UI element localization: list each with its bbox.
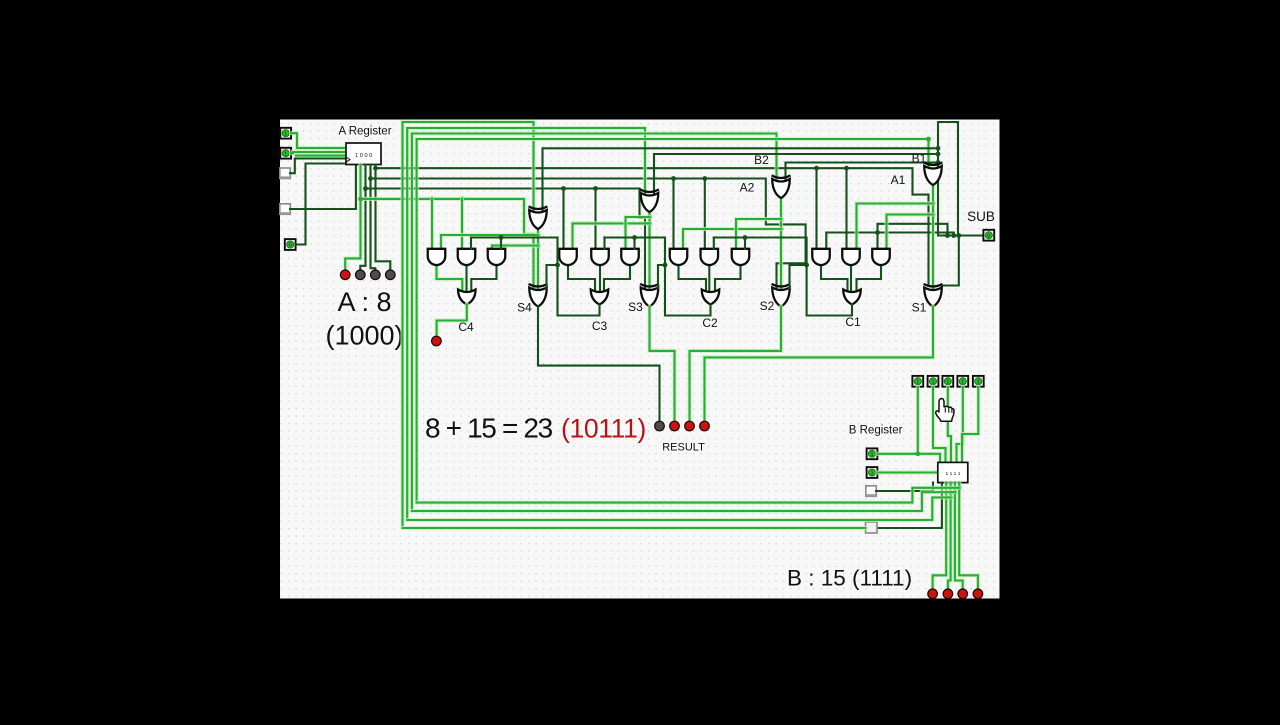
svg-text:S3: S3 (628, 300, 643, 314)
wire SUB loop (938, 122, 988, 236)
svg-text:8 + 15 = 23: 8 + 15 = 23 (425, 413, 553, 444)
junction B'4 branch2 (536, 243, 541, 248)
wire pinA1 to register D1 (290, 159, 346, 174)
junction B0 tap (957, 485, 962, 490)
input pin A bit0 (gray) (280, 204, 291, 215)
junction B'3 branch1 (647, 221, 652, 226)
junction C3 xor branch (555, 263, 560, 268)
and gate slice1 AND1 (812, 249, 830, 265)
LED B0 (red) (973, 588, 984, 599)
input pin A bit3 (1) (280, 128, 291, 139)
mouse cursor hand (936, 398, 954, 421)
xor gate B2 input (B xor SUB) (772, 175, 791, 198)
junction A4 to AND1 (430, 197, 435, 202)
wire B'1 to AND b (887, 215, 934, 250)
wire carry C1 staircase (714, 238, 852, 316)
junction A3 to AND2 (593, 186, 598, 191)
wire carry C2 staircase (605, 238, 711, 316)
and gate slice2 AND2 (701, 249, 719, 265)
input pin A load (285, 239, 296, 250)
or gate carry C2 (702, 290, 720, 305)
wire AND1 out slice1 (821, 265, 848, 293)
LED B1 (red) (957, 588, 968, 599)
wire B'4 to AND a (441, 235, 538, 249)
wire xor4 output to sum (536, 229, 540, 288)
junction A1 to AND2 (844, 166, 849, 171)
wire B'2 to AND b (736, 219, 781, 249)
wire B out to LED4 (959, 483, 978, 589)
wire B pin3 to register (948, 387, 951, 463)
junction B'4 branch1 (536, 233, 541, 238)
svg-text:A Register: A Register (338, 126, 391, 138)
and gate slice1 AND3 (872, 249, 890, 265)
junction B1 line (926, 137, 931, 142)
wire A2 to slice2 AND2 (704, 179, 706, 250)
input pin B load (867, 467, 878, 478)
xor gate sum S3 (640, 284, 659, 307)
wire C3 stub AND2 (470, 238, 472, 250)
wire C1 stub AND3 (744, 238, 746, 250)
junction A3 to AND1 (561, 186, 566, 191)
junction B1 tap (953, 490, 958, 495)
wire B pin5 to register (962, 387, 978, 463)
svg-text:1: 1 (931, 379, 934, 385)
wire register D3 input run (296, 154, 346, 158)
wire AND3 out slice2 (715, 265, 741, 293)
wire B out to LED1 (933, 483, 947, 589)
wire B enable to register (877, 452, 917, 456)
LED A0 (gray) (385, 269, 396, 280)
wire pinA2 to register D2 (291, 152, 346, 153)
wire S3 to result LED (650, 307, 675, 421)
svg-text:(1000): (1000) (325, 321, 403, 351)
wire B2 feedback bundle line (412, 134, 777, 512)
junction C0 cross (875, 230, 880, 235)
and gate slice3 AND3 (621, 249, 639, 265)
wire B load to register (877, 470, 937, 474)
LED result S3 (red) (669, 421, 680, 432)
wire AND1 out slice2 (679, 265, 707, 293)
junction C3 AND3 (499, 235, 504, 240)
wire C2 to sum xor (658, 265, 665, 288)
wire A1 to slice1 AND2 (845, 168, 847, 249)
wire B pin4 to register (957, 387, 963, 463)
wire B'2 to AND a (683, 229, 781, 249)
wire net A4 row (value 1) (361, 199, 534, 288)
wire A3 register output to LED (345, 165, 360, 270)
junction C2 AND3 (632, 235, 637, 240)
svg-text:B : 15 (1111): B : 15 (1111) (787, 566, 912, 591)
junction A2 to AND1 (671, 176, 676, 181)
wire net A2 row (371, 179, 806, 289)
svg-text:0: 0 (289, 243, 292, 249)
junction SUB s4 (936, 146, 941, 151)
svg-text:RESULT: RESULT (662, 442, 705, 454)
wire AND2 out slice1 (850, 265, 852, 293)
svg-text:1: 1 (977, 379, 980, 385)
wire B1 feedback bottom run (412, 492, 955, 511)
wire C1 to sum xor (790, 265, 807, 288)
wire A1 to slice1 AND1 (815, 168, 817, 249)
xor gate B1 input (B xor SUB) (924, 162, 943, 185)
wire net A1 row (376, 168, 929, 285)
junction SUB s2 (936, 160, 941, 165)
and gate slice3 AND1 (559, 249, 577, 265)
wire B'3 to AND b (626, 217, 650, 249)
wire AND3 out slice4 (471, 265, 496, 293)
wire S1 to result LED (705, 307, 934, 421)
junction C1 xor branch (804, 263, 809, 268)
junction B enable (915, 451, 920, 456)
wire xor1 output to sum (931, 185, 935, 288)
junction A2 row (368, 176, 373, 181)
wire C0 to slice1 AND1 right (826, 233, 954, 250)
wire B4 out dark to inverter (877, 483, 942, 528)
svg-text:B2: B2 (754, 153, 769, 167)
wire C0 to S1 xor (942, 236, 959, 291)
wire A0 register output to LED (376, 165, 391, 270)
LED result S4 (gray) (654, 421, 665, 432)
wire B'1 to AND a (857, 204, 934, 250)
wire net A3 row (366, 189, 646, 289)
junction A3 row (363, 186, 368, 191)
svg-text:S2: S2 (760, 299, 775, 313)
LED A2 (gray) (355, 269, 366, 280)
svg-text:A : 8: A : 8 (337, 287, 391, 317)
or gate carry C1 (843, 290, 861, 305)
input pin B toggle 1 (912, 376, 923, 387)
wire A2 to slice2 AND1 (672, 179, 674, 250)
xor gate sum S2 (772, 284, 791, 307)
wire C3 stub AND3 (500, 238, 502, 250)
wire SUB to slice3 xor (654, 154, 938, 193)
wire B4 feedback bottom run (403, 526, 866, 530)
junction B'3 branch2 (647, 215, 652, 220)
B register box (938, 462, 968, 482)
junction A4 to AND2 (460, 197, 465, 202)
svg-text:1: 1 (284, 131, 287, 137)
junction A4 row (358, 197, 363, 202)
and gate slice4 AND1 (428, 249, 446, 265)
junction SUB carry-in (945, 233, 950, 238)
svg-text:S1: S1 (912, 301, 927, 315)
LED A3 (red) (340, 269, 351, 280)
inverter/buffer box on B4 line (866, 522, 878, 533)
wire xor2 output to sum (779, 198, 783, 288)
wire S4 to result LED (538, 307, 660, 421)
svg-text:C4: C4 (458, 320, 474, 334)
xor gate B3 input (B xor SUB) (640, 189, 659, 212)
wire C4 to LED (437, 305, 467, 336)
wire B4 feedback bundle line (403, 122, 534, 528)
canvas background (280, 120, 1000, 599)
wire pinA0 to register D0 (290, 165, 356, 210)
wire A3 to slice3 AND1 (562, 189, 564, 250)
wire SUB to slice2 xor (786, 163, 939, 180)
and gate slice3 AND2 (591, 249, 609, 265)
LED result S1 (red) (699, 421, 710, 432)
wire AND2 out slice2 (708, 265, 710, 293)
wire AND1 out slice4 (437, 265, 463, 293)
svg-text:SUB: SUB (967, 209, 995, 224)
svg-text:1: 1 (284, 151, 287, 157)
junction A2 to AND2 (702, 176, 707, 181)
LED B3 (red) (927, 588, 938, 599)
junction B'2 branch1 (779, 227, 784, 232)
LED C4 (red) (431, 336, 442, 347)
wire B1 feedback bundle line (417, 139, 929, 503)
wire C0 to slice1 AND3 left (878, 224, 948, 249)
junction SUB aux2 (956, 233, 961, 238)
wire AND2 out slice4 (465, 265, 467, 293)
wire B out to LED3 (955, 483, 963, 589)
wire AND3 out slice1 (857, 265, 882, 293)
wire B out to LED2 (948, 483, 951, 589)
wire A load to register clock (296, 164, 347, 245)
A register box (346, 143, 381, 165)
xor gate sum S4 (529, 284, 548, 307)
junction SUB aux1 (951, 233, 956, 238)
svg-text:A2: A2 (740, 181, 755, 195)
junction A1 to AND (814, 166, 819, 171)
wire A4 to slice4 AND1 (430, 199, 434, 249)
input pin B toggle 3 (942, 376, 953, 387)
input pin B toggle 5 (973, 376, 984, 387)
or gate carry C3 (591, 290, 609, 305)
wire AND3 out slice3 (604, 265, 630, 293)
svg-text:A1: A1 (891, 173, 906, 187)
wire B2 feedback bottom run (407, 497, 950, 520)
cursor finger gap lines (945, 407, 952, 413)
input pin A bit1 (gray) (280, 168, 291, 179)
svg-text:C1: C1 (845, 315, 861, 329)
wire AND2 out slice3 (599, 265, 601, 293)
wire AND1 out slice3 (568, 265, 595, 293)
LED B2 (red) (943, 588, 954, 599)
wire C1 stub AND2 (713, 238, 715, 250)
svg-text:1: 1 (946, 379, 949, 385)
wire A1 register output to LED (371, 165, 376, 270)
junction A1 row (373, 166, 378, 171)
wire SUB to slice4 xor (543, 148, 939, 210)
wire xor3 output to sum (647, 212, 651, 288)
xor gate sum S1 (924, 284, 943, 307)
input pin B clock (gray) (866, 486, 877, 497)
wire A4 to slice4 AND2 (460, 199, 464, 249)
wire B0 feedback bottom run (417, 488, 960, 503)
junction B'1 branch2 (931, 212, 936, 217)
wire B pin1 to register (918, 387, 940, 463)
input pin B enable (867, 448, 878, 459)
wire B'3 to AND a (573, 223, 650, 249)
svg-text:1 1 1 1: 1 1 1 1 (946, 471, 961, 477)
junction B2 tap (948, 495, 953, 500)
wire B pin2 to register (933, 387, 946, 463)
svg-text:B1: B1 (912, 152, 927, 166)
wire SUB to slice1 xor (937, 163, 939, 167)
svg-text:C3: C3 (592, 319, 608, 333)
input pin SUB (0) (983, 230, 994, 241)
wire A2 register output to LED (360, 165, 365, 270)
wire B3 feedback bundle line (407, 128, 645, 520)
or gate carry C4 (458, 290, 476, 305)
svg-text:B Register: B Register (849, 425, 903, 437)
and gate slice2 AND3 (732, 249, 750, 265)
and gate slice2 AND1 (670, 249, 688, 265)
wire B'4 to AND b (492, 246, 538, 250)
input pin B toggle 4 (957, 376, 968, 387)
svg-text:1: 1 (961, 379, 964, 385)
svg-text:1: 1 (870, 452, 873, 458)
svg-text:S4: S4 (517, 301, 532, 315)
wire pinA3 to register D3 (291, 133, 346, 148)
svg-text:1: 1 (916, 379, 919, 385)
input pin B toggle 2 (928, 376, 939, 387)
xor gate B4 input (B xor SUB) (529, 206, 548, 229)
wire C2 stub AND3 (633, 238, 635, 250)
wire A3 to slice3 AND2 (594, 189, 596, 250)
and gate slice4 AND3 (488, 249, 506, 265)
svg-text:C2: C2 (702, 316, 718, 330)
junction B'1 branch1 (931, 201, 936, 206)
LED A1 (gray) (370, 269, 381, 280)
wire S2 to result LED (690, 307, 782, 421)
wire C2 stub AND2 (603, 238, 605, 250)
and gate slice1 AND2 (842, 249, 860, 265)
svg-text:1 0 0 0: 1 0 0 0 (355, 153, 372, 159)
and gate slice4 AND2 (458, 249, 476, 265)
junction SUB s3 (936, 152, 941, 157)
junction B'2 branch2 (779, 217, 784, 222)
svg-text:(10111): (10111) (561, 414, 646, 444)
LED result S2 (red) (684, 421, 695, 432)
input pin A bit2 (1) (280, 148, 291, 159)
wire B clock to register (876, 483, 933, 491)
wire C3 to sum xor (547, 265, 558, 288)
wire carry C3 staircase (471, 238, 600, 316)
junction C2 xor branch (663, 263, 668, 268)
svg-text:1: 1 (870, 471, 873, 477)
junction C1 AND3 (743, 235, 748, 240)
svg-text:0: 0 (987, 233, 990, 239)
